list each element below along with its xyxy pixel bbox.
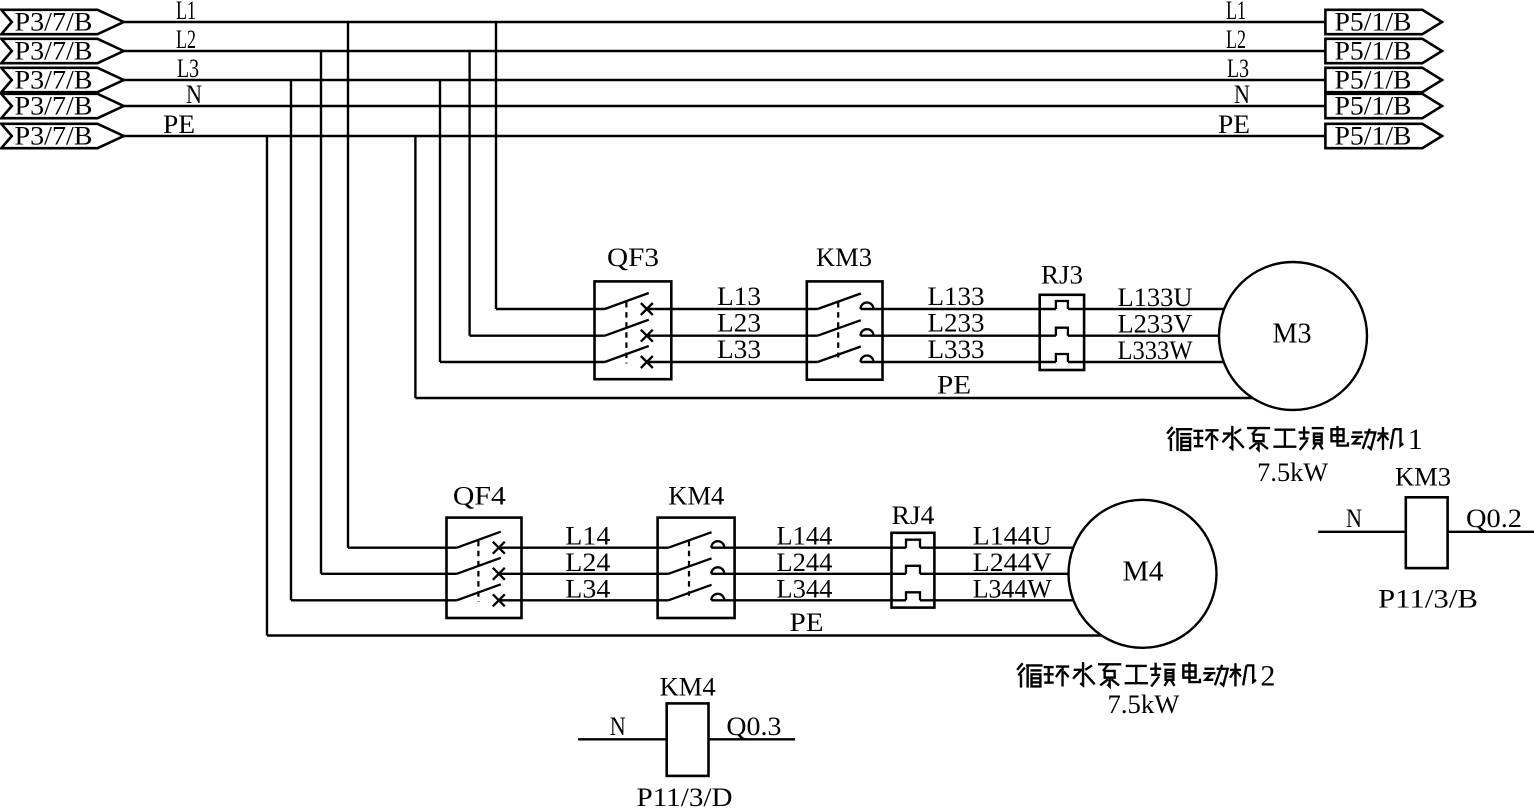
- svg-text:1: 1: [1408, 423, 1423, 456]
- thermal relay RJ4: [892, 533, 935, 608]
- svg-text:P3/7/B: P3/7/B: [15, 37, 93, 66]
- wire L33 QF3 to KM3: [647, 361, 818, 363]
- svg-text:P5/1/B: P5/1/B: [1335, 122, 1412, 151]
- svg-text:L133U: L133U: [1118, 283, 1193, 312]
- svg-text:P3/7/B: P3/7/B: [15, 66, 93, 95]
- wire tap PE to QF3 circuit: [414, 136, 416, 398]
- caption motor 2 name: [1017, 659, 1275, 692]
- circuit breaker QF4: [291, 518, 522, 618]
- svg-text:N: N: [1234, 80, 1250, 109]
- source tag P3/7/B (L2): [1, 37, 123, 66]
- source tag P3/7/B (L3): [1, 66, 123, 95]
- svg-text:L2: L2: [1226, 25, 1246, 54]
- wire tap PE to QF4 circuit: [266, 136, 268, 636]
- wire L144U RJ4 to motor M4: [920, 547, 1073, 549]
- svg-text:P5/1/B: P5/1/B: [1335, 66, 1412, 95]
- bus wire L1: [124, 21, 1326, 23]
- bus wire N: [124, 105, 1326, 107]
- svg-text:L344: L344: [776, 574, 832, 603]
- thermal relay RJ3: [1040, 295, 1084, 370]
- svg-text:Q0.2: Q0.2: [1466, 504, 1522, 533]
- motor M4: [1069, 500, 1217, 648]
- PE wire to motor M3: [415, 397, 1253, 399]
- svg-text:KM4: KM4: [668, 482, 724, 511]
- svg-text:L13: L13: [717, 282, 761, 311]
- wire Q0.3 from coil KM4: [709, 738, 796, 740]
- wire L344W RJ4 to motor M4: [920, 599, 1073, 601]
- svg-text:L133: L133: [928, 282, 985, 311]
- destination tag P5/1/B (L1): [1325, 8, 1442, 37]
- destination tag P5/1/B (PE): [1325, 122, 1442, 151]
- bus wire L2: [124, 50, 1326, 52]
- svg-text:RJ3: RJ3: [1041, 260, 1083, 289]
- svg-text:N: N: [186, 80, 202, 109]
- svg-text:PE: PE: [163, 110, 195, 139]
- svg-text:L244: L244: [776, 548, 832, 577]
- svg-text:P3/7/B: P3/7/B: [15, 92, 93, 121]
- svg-text:L333W: L333W: [1118, 336, 1193, 365]
- svg-text:PE: PE: [937, 371, 971, 400]
- svg-text:N: N: [1346, 504, 1362, 533]
- wire tap L2 to QF3 circuit: [468, 51, 470, 336]
- source tag P3/7/B (L1): [1, 8, 123, 37]
- wire Q0.2 from coil KM3: [1448, 531, 1534, 533]
- svg-text:P11/3/D: P11/3/D: [637, 783, 733, 811]
- wire L13 QF3 to KM3: [647, 308, 818, 310]
- contactor coil KM4: [667, 703, 709, 776]
- svg-text:P5/1/B: P5/1/B: [1335, 37, 1412, 66]
- motor M3: [1219, 262, 1367, 410]
- svg-text:L233V: L233V: [1118, 310, 1193, 339]
- svg-text:RJ4: RJ4: [892, 501, 935, 530]
- svg-text:P11/3/B: P11/3/B: [1378, 585, 1478, 614]
- destination tag P5/1/B (L2): [1325, 37, 1442, 66]
- wire tap L1 to QF3 circuit: [495, 22, 497, 309]
- svg-text:L144: L144: [776, 522, 832, 551]
- svg-text:7.5kW: 7.5kW: [1108, 690, 1180, 719]
- svg-text:2: 2: [1260, 659, 1275, 692]
- destination tag P5/1/B (N): [1325, 92, 1442, 121]
- wire L14 QF4 to KM4: [499, 547, 669, 549]
- circuit breaker QF3: [440, 281, 671, 379]
- wire L24 QF4 to KM4: [499, 573, 669, 575]
- svg-text:L333: L333: [928, 335, 985, 364]
- svg-text:L14: L14: [565, 522, 610, 551]
- svg-text:L3: L3: [1227, 54, 1249, 83]
- svg-text:L144U: L144U: [973, 522, 1052, 551]
- wire L333W RJ3 to motor M3: [1068, 361, 1224, 363]
- svg-text:L1: L1: [176, 0, 196, 25]
- wire L144 KM4 to RJ4: [711, 547, 906, 549]
- wire L133U RJ3 to motor M3: [1068, 308, 1224, 310]
- wire N to coil KM3: [1318, 531, 1406, 533]
- svg-text:L344W: L344W: [973, 574, 1052, 603]
- svg-text:L33: L33: [717, 335, 761, 364]
- svg-text:QF3: QF3: [607, 243, 659, 272]
- wire L34 QF4 to KM4: [499, 599, 669, 601]
- svg-text:L34: L34: [565, 574, 610, 603]
- wire L23 QF3 to KM3: [647, 335, 818, 337]
- wire tap L3 to QF4 circuit: [290, 80, 292, 600]
- svg-text:L24: L24: [565, 548, 610, 577]
- contactor coil KM3: [1406, 497, 1448, 568]
- svg-text:L233: L233: [928, 309, 985, 338]
- svg-text:M3: M3: [1273, 318, 1312, 350]
- svg-text:PE: PE: [790, 608, 824, 637]
- wire N to coil KM4: [578, 738, 667, 740]
- caption motor 1 name: [1167, 423, 1423, 456]
- svg-text:KM3: KM3: [1395, 462, 1451, 491]
- wire L233V RJ3 to motor M3: [1068, 335, 1219, 337]
- svg-text:P3/7/B: P3/7/B: [15, 8, 93, 37]
- contactor main contacts KM3: [807, 281, 883, 379]
- bus wire PE: [124, 135, 1326, 137]
- svg-text:Q0.3: Q0.3: [726, 712, 781, 741]
- svg-text:P5/1/B: P5/1/B: [1335, 92, 1412, 121]
- wire L333 KM3 to RJ3: [861, 361, 1056, 363]
- svg-text:L1: L1: [1226, 0, 1246, 25]
- contactor main contacts KM4: [658, 518, 735, 618]
- source tag P3/7/B (N): [1, 92, 123, 121]
- destination tag P5/1/B (L3): [1325, 66, 1442, 95]
- svg-text:M4: M4: [1123, 555, 1164, 587]
- wire L233 KM3 to RJ3: [861, 335, 1056, 337]
- svg-text:P5/1/B: P5/1/B: [1335, 8, 1412, 37]
- bus wire L3: [124, 79, 1326, 81]
- svg-text:PE: PE: [1218, 110, 1250, 139]
- svg-text:KM4: KM4: [660, 673, 716, 702]
- svg-text:L3: L3: [177, 54, 199, 83]
- wire L244V RJ4 to motor M4: [920, 573, 1069, 575]
- wire L244 KM4 to RJ4: [711, 573, 906, 575]
- wire L344 KM4 to RJ4: [711, 599, 906, 601]
- svg-text:N: N: [610, 712, 626, 741]
- PE wire to motor M4: [267, 634, 1102, 636]
- wire L133 KM3 to RJ3: [861, 308, 1056, 310]
- svg-text:P3/7/B: P3/7/B: [15, 122, 93, 151]
- wire tap L2 to QF4 circuit: [320, 51, 322, 574]
- svg-text:L2: L2: [176, 25, 196, 54]
- svg-text:L244V: L244V: [973, 548, 1052, 577]
- svg-text:KM3: KM3: [816, 243, 872, 272]
- svg-text:L23: L23: [717, 309, 761, 338]
- wire tap L3 to QF3 circuit: [439, 80, 441, 362]
- svg-text:QF4: QF4: [453, 482, 506, 511]
- source tag P3/7/B (PE): [1, 122, 123, 151]
- svg-text:7.5kW: 7.5kW: [1257, 458, 1328, 487]
- wire tap L1 to QF4 circuit: [347, 22, 349, 548]
